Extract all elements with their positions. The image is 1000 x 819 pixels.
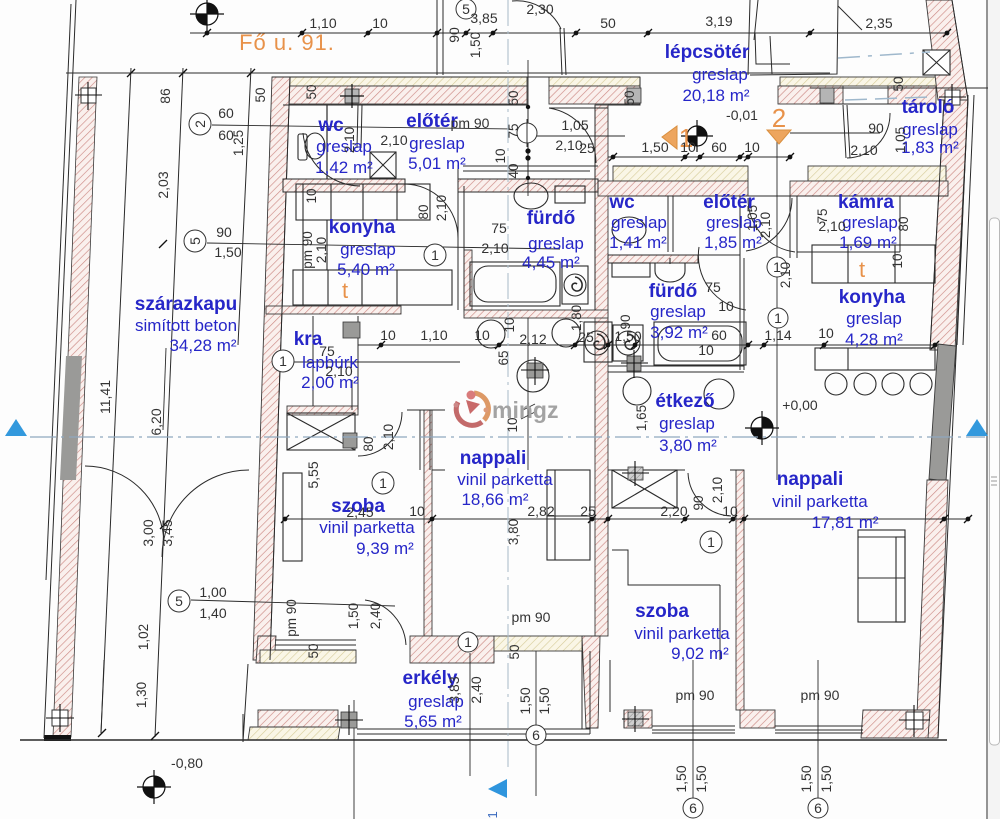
szoba1 bed rectangle <box>283 473 302 561</box>
svg-text:vinil parketta: vinil parketta <box>772 492 868 511</box>
axis circle 6 window2 <box>683 798 703 818</box>
etkezo table circle <box>704 379 734 409</box>
svg-text:mingz: mingz <box>492 397 558 423</box>
svg-text:2,10: 2,10 <box>850 142 877 158</box>
cross square left bottom <box>46 704 74 732</box>
szoba2 bottom door jamb line <box>609 660 611 712</box>
svg-text:3,85: 3,85 <box>470 10 497 26</box>
axis circle 1 kra <box>272 350 294 372</box>
eloter1 right wall toward stair <box>527 105 529 178</box>
gray cross square mid washing <box>521 357 549 385</box>
etkezo bottom X-box wall top <box>608 469 685 471</box>
szarazkapu gate right <box>162 470 249 557</box>
konyha2 counter bottom <box>815 348 935 370</box>
eloter2/kamra partition <box>789 196 791 258</box>
svg-text:konyha: konyha <box>329 217 396 238</box>
party wall lower part <box>582 636 600 728</box>
svg-text:50: 50 <box>306 643 321 658</box>
svg-text:1,14: 1,14 <box>764 327 791 343</box>
door arc stair-right unit 1 <box>748 198 795 252</box>
door arc szoba2 <box>688 473 731 516</box>
svg-text:1,10: 1,10 <box>309 15 336 31</box>
svg-text:1,50: 1,50 <box>673 765 689 792</box>
kamra door dim line <box>790 132 880 134</box>
axis circle 6 window3 <box>808 798 828 818</box>
circle5 connector <box>207 243 560 249</box>
circle2 connector <box>212 125 510 129</box>
svg-text:1,41 m²: 1,41 m² <box>609 233 667 252</box>
left unit inner face of left wall <box>270 77 290 660</box>
wc1 toilet <box>305 133 325 159</box>
dimension line y519 <box>285 518 968 520</box>
svg-text:+0,00: +0,00 <box>782 397 818 413</box>
dimension column line 3 (50/60..) <box>238 68 251 345</box>
right page edge line <box>986 0 988 819</box>
svg-text:wc: wc <box>317 115 344 136</box>
svg-text:6: 6 <box>532 727 540 743</box>
gray cross square szoba1 <box>343 433 357 448</box>
elzoter top wall inner line left unit <box>283 104 528 106</box>
right unit bottom wall piece mid <box>740 710 775 728</box>
cross square left top <box>75 82 102 110</box>
washing machine 2 <box>613 325 643 361</box>
vertical dim erkely x354 <box>353 700 355 819</box>
vertical dim erkely x470 <box>469 653 471 776</box>
svg-text:5: 5 <box>462 1 470 17</box>
blue triangle left <box>5 419 27 436</box>
svg-text:50: 50 <box>304 84 319 99</box>
svg-text:2,10: 2,10 <box>481 240 508 256</box>
bottom wall erkely-right segment yellow <box>494 636 582 651</box>
wc1 dim line vertical <box>326 105 328 184</box>
svg-text:1,30: 1,30 <box>134 682 149 708</box>
right unit bottom wall piece right <box>861 710 930 738</box>
door arc fuerdo2 <box>698 247 746 310</box>
svg-text:1: 1 <box>707 534 715 550</box>
nappali2 window bottom lines <box>775 725 863 727</box>
vertical dash-dot section line <box>507 0 509 770</box>
vertical dim line x163 area column ticks <box>163 348 166 430</box>
svg-text:10: 10 <box>890 253 905 268</box>
etkezo X wardrobe <box>612 470 677 508</box>
gray square top wall 1 <box>340 84 364 108</box>
svg-text:5,01 m²: 5,01 m² <box>408 154 466 173</box>
blue triangle right <box>966 419 988 436</box>
svg-text:1,85 m²: 1,85 m² <box>704 233 762 252</box>
svg-text:6,20: 6,20 <box>148 408 164 435</box>
lepcso top right outline <box>608 77 640 105</box>
svg-text:25: 25 <box>580 503 596 519</box>
svg-text:1,10: 1,10 <box>420 327 447 343</box>
gray square top wall 3 <box>820 88 834 103</box>
svg-text:simított beton: simított beton <box>135 316 237 335</box>
svg-text:fürdő: fürdő <box>649 281 698 302</box>
bathtub1 <box>470 262 560 306</box>
svg-text:greslap: greslap <box>692 65 748 84</box>
svg-text:-0,80: -0,80 <box>171 755 203 771</box>
svg-text:25: 25 <box>579 140 595 156</box>
party wall vertical hatched center <box>595 105 608 636</box>
ticks on top dim line <box>203 29 951 37</box>
door arc eloter1 entry <box>549 108 596 163</box>
bottom wall szoba1 under window yellow <box>260 650 356 663</box>
wc1/eloter partition vertical <box>357 105 358 148</box>
svg-text:10: 10 <box>505 417 520 432</box>
svg-text:greslap: greslap <box>611 213 667 232</box>
axis circle 1 erkely <box>458 632 478 652</box>
gray cross square etkezo <box>622 461 649 486</box>
svg-text:10: 10 <box>680 139 696 155</box>
svg-text:2,10: 2,10 <box>325 363 352 379</box>
svg-text:étkező: étkező <box>655 391 714 412</box>
right outer wall slanted hatched mid <box>930 100 968 350</box>
svg-text:vinil parketta: vinil parketta <box>319 518 415 537</box>
svg-text:50: 50 <box>600 15 616 31</box>
konyha1 bottom thin wall <box>266 306 401 314</box>
svg-text:1: 1 <box>431 247 439 263</box>
szoba1 X wardrobe <box>287 413 355 450</box>
scrollbar right edge <box>988 0 1000 819</box>
axis circle 6 erkely <box>526 725 546 745</box>
ticks on y519 line <box>281 515 972 523</box>
szoba2 inner outline <box>612 550 720 585</box>
svg-text:vinil parketta: vinil parketta <box>634 624 730 643</box>
svg-text:10: 10 <box>718 298 734 314</box>
wall between konyha1 and szoba1 <box>287 406 358 415</box>
nappali2 right wall inner line <box>930 100 944 350</box>
svg-text:2,20: 2,20 <box>660 503 687 519</box>
vertical dim x528 mid <box>527 318 529 470</box>
svg-text:2,10: 2,10 <box>314 237 329 263</box>
svg-text:5,40 m²: 5,40 m² <box>337 260 395 279</box>
konyha1 counter bottom row <box>293 270 452 305</box>
svg-text:2,10: 2,10 <box>818 218 845 234</box>
bottom wall szoba1 left piece <box>256 636 276 663</box>
gray cross square erkely wall <box>335 705 363 735</box>
gray bar on left boundary <box>60 356 82 480</box>
door arc erkely <box>365 600 406 645</box>
black bar bottom of left boundary <box>44 735 71 741</box>
erkely right edge lines <box>581 651 583 729</box>
ticks on y345 line <box>377 341 939 349</box>
survey marker center <box>745 411 779 445</box>
svg-text:1,65: 1,65 <box>634 405 649 431</box>
ticks on left columns <box>127 69 135 77</box>
top-right X box <box>923 50 950 75</box>
axis circle 5 left <box>184 230 206 252</box>
svg-text:kámra: kámra <box>838 192 894 213</box>
svg-text:greslap: greslap <box>902 120 958 139</box>
axis circle 1 szoba1 <box>372 472 394 494</box>
svg-text:pm 90: pm 90 <box>676 687 715 703</box>
svg-text:-0,01: -0,01 <box>726 107 758 123</box>
ground line bottom <box>20 739 947 741</box>
fuerdo2 sink <box>655 263 685 282</box>
erkely floor edge double line <box>357 728 590 730</box>
site boundary outer slanted line <box>44 0 76 738</box>
svg-text:10: 10 <box>493 148 508 163</box>
svg-text:2: 2 <box>772 103 786 133</box>
svg-text:10: 10 <box>722 503 738 519</box>
svg-text:1,50: 1,50 <box>641 139 668 155</box>
gray square kra <box>343 322 360 338</box>
svg-text:2,10: 2,10 <box>380 132 407 148</box>
svg-text:10: 10 <box>409 503 425 519</box>
svg-text:1,25: 1,25 <box>231 130 246 156</box>
svg-text:5: 5 <box>187 237 203 245</box>
svg-text:5,65 m²: 5,65 m² <box>404 712 462 731</box>
svg-text:10: 10 <box>304 188 319 203</box>
svg-text:80: 80 <box>896 216 911 231</box>
door dim line eloter1 <box>537 135 625 137</box>
right unit: wc2/eloter2 partition <box>667 196 669 252</box>
svg-text:2,10: 2,10 <box>381 424 396 450</box>
svg-text:3,80 m²: 3,80 m² <box>659 436 717 455</box>
right unit top wall red strip left of door <box>598 181 748 196</box>
svg-text:3,92 m²: 3,92 m² <box>650 323 708 342</box>
svg-text:10: 10 <box>502 317 517 332</box>
svg-text:10: 10 <box>474 327 490 343</box>
svg-text:lépcsötér: lépcsötér <box>665 42 750 63</box>
axis circle 5 top <box>456 0 476 19</box>
svg-text:1,50: 1,50 <box>693 765 709 792</box>
svg-text:90: 90 <box>216 224 232 240</box>
svg-text:szoba: szoba <box>635 601 689 622</box>
svg-text:3,19: 3,19 <box>705 13 732 29</box>
svg-text:6: 6 <box>814 800 822 816</box>
washing machine left of party wall <box>584 322 612 362</box>
svg-text:2,10: 2,10 <box>710 477 725 503</box>
ticks on right unit y157 <box>609 153 617 161</box>
watermark logo <box>454 391 559 426</box>
top dimension line <box>190 32 947 34</box>
right unit top wall yellow strip <box>613 166 748 181</box>
blue triangle bottom <box>488 779 507 798</box>
svg-text:40: 40 <box>506 163 521 178</box>
sofa nappali2 <box>858 530 905 622</box>
svg-text:-1: -1 <box>485 811 500 819</box>
svg-text:nappali: nappali <box>777 469 844 490</box>
top wall yellow strip right side <box>780 77 948 86</box>
partition wall szoba1/nappali1 vertical <box>424 410 432 636</box>
svg-text:1,05: 1,05 <box>561 117 588 133</box>
fuerdo2 shelf <box>612 263 650 277</box>
nappali1 west line <box>432 469 445 471</box>
svg-text:greslap: greslap <box>659 414 715 433</box>
svg-text:1,50: 1,50 <box>346 603 361 629</box>
svg-text:1,69 m²: 1,69 m² <box>839 233 897 252</box>
svg-text:pm 90: pm 90 <box>284 599 299 637</box>
svg-text:6: 6 <box>689 800 697 816</box>
svg-text:1,50: 1,50 <box>798 765 814 792</box>
svg-text:greslap: greslap <box>409 134 465 153</box>
konyha1 left column lines <box>302 184 304 305</box>
right unit inner top line <box>608 195 948 197</box>
svg-text:nappali: nappali <box>460 448 527 469</box>
svg-text:2: 2 <box>192 120 208 128</box>
svg-text:greslap: greslap <box>846 309 902 328</box>
top building line <box>272 76 640 78</box>
svg-text:80: 80 <box>416 204 431 219</box>
svg-text:pm 90: pm 90 <box>512 609 551 625</box>
vertical dim x528 top <box>527 60 529 196</box>
door arc kamra top <box>847 113 890 158</box>
svg-text:20,18 m²: 20,18 m² <box>682 86 749 105</box>
svg-text:greslap: greslap <box>842 213 898 232</box>
toilet mid 2 <box>552 319 580 347</box>
gray square top wall 2 <box>627 88 641 103</box>
svg-text:10: 10 <box>372 15 388 31</box>
wall under wc1 horizontal thin <box>283 179 405 192</box>
svg-text:2,10: 2,10 <box>778 262 793 288</box>
survey marker top <box>190 0 224 31</box>
szoba1 bottom window lines <box>275 639 356 641</box>
top right faint dashes <box>838 52 930 58</box>
szoba2 door wall <box>730 469 744 471</box>
svg-text:2,40: 2,40 <box>468 676 484 703</box>
svg-text:5,55: 5,55 <box>305 461 321 488</box>
svg-text:pm 90: pm 90 <box>801 687 840 703</box>
svg-text:34,28 m²: 34,28 m² <box>169 336 236 355</box>
neighbour outline short <box>748 0 750 75</box>
svg-text:2,82: 2,82 <box>527 503 554 519</box>
svg-text:10: 10 <box>818 325 834 341</box>
fuerdo1 left wall vertical hatch <box>464 250 472 312</box>
toilet mid 1 <box>477 320 505 348</box>
szoba1 door wall stub vertical <box>419 410 421 470</box>
svg-text:10: 10 <box>698 342 714 358</box>
svg-text:t: t <box>342 278 348 303</box>
door arc fuerdo1 <box>405 184 458 238</box>
svg-text:75: 75 <box>491 220 507 236</box>
axis circle 1 szoba2 <box>700 531 722 553</box>
svg-text:1,50: 1,50 <box>818 765 834 792</box>
fuerdo2 right wall / nappali2 left top <box>739 196 741 370</box>
burner circles <box>825 373 847 395</box>
konyha1/fuerdo1 partition vertical <box>457 165 459 310</box>
svg-text:1,02: 1,02 <box>136 624 151 650</box>
svg-text:3,83: 3,83 <box>446 676 462 703</box>
axis circle 2 <box>189 113 211 135</box>
mid dimension line y345 <box>358 344 935 346</box>
svg-text:vinil parketta: vinil parketta <box>457 470 553 489</box>
svg-text:greslap: greslap <box>650 302 706 321</box>
svg-text:pm 90: pm 90 <box>300 231 315 269</box>
dimension column line 2 <box>155 68 183 737</box>
circle5b connector <box>191 600 395 606</box>
dim line right unit y157 <box>608 156 790 158</box>
svg-text:50: 50 <box>253 87 268 102</box>
svg-text:10: 10 <box>380 327 396 343</box>
svg-text:2,45: 2,45 <box>346 504 373 520</box>
survey marker lepcso <box>681 120 713 152</box>
svg-text:szárazkapu: szárazkapu <box>135 294 237 315</box>
right outer wall hatched lower <box>916 480 948 738</box>
washing machine 1 <box>562 266 588 304</box>
svg-text:50: 50 <box>891 76 906 91</box>
etkezo toilet circle <box>623 377 651 405</box>
neighbour building outline top right <box>750 0 838 75</box>
svg-text:tároló: tároló <box>902 97 955 118</box>
fuerdo1 bottom wall <box>464 310 608 318</box>
svg-text:1,80: 1,80 <box>569 305 584 331</box>
erkely slab bottom wall red <box>258 710 338 727</box>
svg-text:11,41: 11,41 <box>97 380 113 414</box>
erkely left slab edge <box>242 714 244 742</box>
svg-text:18,66 m²: 18,66 m² <box>461 490 528 509</box>
szoba2/nappali2 partition wall <box>736 470 744 710</box>
svg-text:3,45: 3,45 <box>159 519 175 546</box>
svg-text:2,03: 2,03 <box>155 171 171 198</box>
svg-text:greslap: greslap <box>528 234 584 253</box>
svg-text:1,40: 1,40 <box>199 605 226 621</box>
site boundary hatched band left <box>53 77 97 737</box>
top wall red strip left unit <box>272 86 527 104</box>
survey marker bottom-left <box>137 770 171 804</box>
kamra shelf row <box>812 245 935 283</box>
kamra bottom shelf wall <box>797 251 900 253</box>
svg-text:2,12: 2,12 <box>519 331 546 347</box>
svg-text:konyha: konyha <box>839 287 906 308</box>
svg-text:90: 90 <box>618 314 633 329</box>
svg-text:65: 65 <box>496 350 511 365</box>
sofa nappali1 <box>547 470 590 560</box>
svg-text:1: 1 <box>379 475 387 491</box>
column circle eloter1 <box>517 119 537 147</box>
svg-text:2,40: 2,40 <box>368 603 383 629</box>
top wall yellow strip left unit <box>285 77 527 86</box>
right unit top wall red strip right of door <box>790 181 948 196</box>
svg-text:1,05: 1,05 <box>893 127 908 153</box>
konyha1 counter top row <box>296 184 430 220</box>
svg-text:1: 1 <box>279 353 287 369</box>
axis circle 1 fuerdo1 <box>424 244 446 266</box>
vertical dim window3 x818 <box>817 660 819 798</box>
axis circle 1 konyha2 <box>768 308 788 328</box>
fuerdo2 bottom wall <box>608 365 744 367</box>
svg-text:4,45 m²: 4,45 m² <box>522 253 580 272</box>
gray cross square window2 <box>622 706 649 732</box>
dimension column line 1 (86/2,03...) <box>101 68 131 733</box>
svg-text:1,83 m²: 1,83 m² <box>901 138 959 157</box>
svg-text:1: 1 <box>464 634 472 650</box>
door arc szoba1 <box>358 412 402 456</box>
kamra right wall <box>899 196 901 252</box>
bottom wall between szoba1 door and erkely <box>410 636 494 663</box>
svg-text:75: 75 <box>319 343 335 359</box>
vertical axis line x777 <box>776 140 778 480</box>
svg-text:4,28 m²: 4,28 m² <box>845 330 903 349</box>
right wall window glazing lines <box>957 95 968 345</box>
kra dim line <box>280 361 460 363</box>
svg-text:50: 50 <box>622 90 637 105</box>
szarazkapu gate left <box>85 466 164 545</box>
fuerdo1 right wall to party <box>594 105 596 310</box>
svg-text:1,50: 1,50 <box>468 32 483 58</box>
tarolo bottom wall strip <box>808 166 946 181</box>
svg-text:60: 60 <box>711 327 727 343</box>
svg-text:50: 50 <box>506 90 521 105</box>
svg-text:Fő u. 91.: Fő u. 91. <box>239 30 335 55</box>
right top wall lower line <box>810 87 948 89</box>
vertical dim x131 bottom tick line <box>101 660 104 733</box>
top wall red strip right side <box>778 86 843 104</box>
svg-text:1,50: 1,50 <box>517 687 533 714</box>
stair area lines top <box>436 0 438 75</box>
vertical dim window2 x693 <box>692 660 694 798</box>
right outer wall slanted hatched top <box>926 0 968 100</box>
svg-text:1,42 m²: 1,42 m² <box>315 158 373 177</box>
